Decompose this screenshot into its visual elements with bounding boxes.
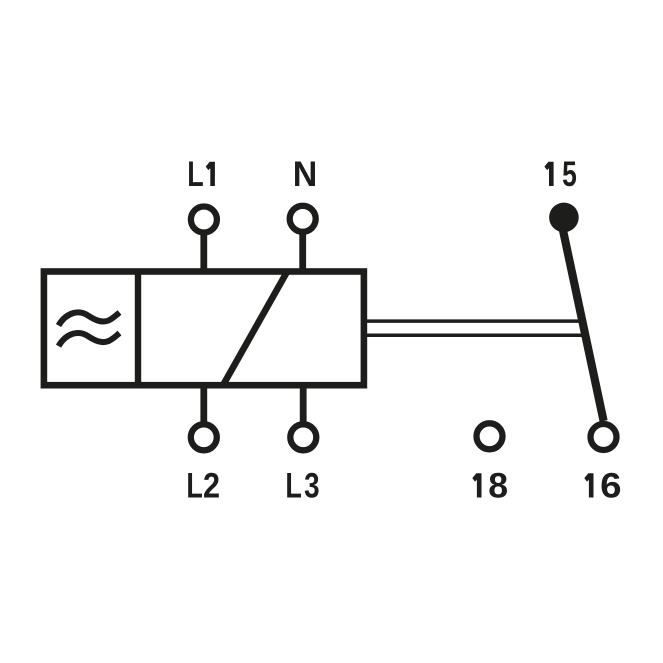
contact lever 15-16 xyxy=(561,219,604,422)
svg-text:L: L xyxy=(285,466,301,505)
relay function diagonal xyxy=(223,272,287,386)
label L2 xyxy=(186,466,220,506)
label 18 xyxy=(472,467,508,506)
label L1 xyxy=(187,155,215,194)
svg-text:L: L xyxy=(186,466,202,505)
label N xyxy=(293,156,318,195)
svg-text:N: N xyxy=(293,156,318,195)
terminal L1 circle xyxy=(191,207,217,233)
terminal 16 circle xyxy=(591,424,617,450)
svg-text:L: L xyxy=(187,155,203,194)
svg-text:5: 5 xyxy=(562,154,577,194)
terminal L2 circle xyxy=(191,424,217,450)
label 16 xyxy=(584,466,621,505)
terminal 15 dot xyxy=(549,203,579,233)
svg-text:2: 2 xyxy=(203,466,220,505)
label L3 xyxy=(285,465,319,505)
svg-text:3: 3 xyxy=(304,465,319,505)
terminal N circle xyxy=(290,206,316,232)
svg-text:6: 6 xyxy=(600,466,621,505)
supply compartment divider xyxy=(135,272,141,386)
mechanical link double line xyxy=(367,321,587,335)
wire L1 stem xyxy=(200,233,207,272)
terminal 18 circle xyxy=(477,423,503,449)
wire L3 stem xyxy=(300,385,307,424)
label 15 xyxy=(544,154,576,194)
wire N stem xyxy=(299,232,306,272)
AC supply symbol xyxy=(59,312,120,346)
terminal L3 circle xyxy=(290,424,316,450)
svg-text:8: 8 xyxy=(488,467,508,506)
relay body K1 xyxy=(44,272,364,386)
wire L2 stem xyxy=(200,385,207,424)
